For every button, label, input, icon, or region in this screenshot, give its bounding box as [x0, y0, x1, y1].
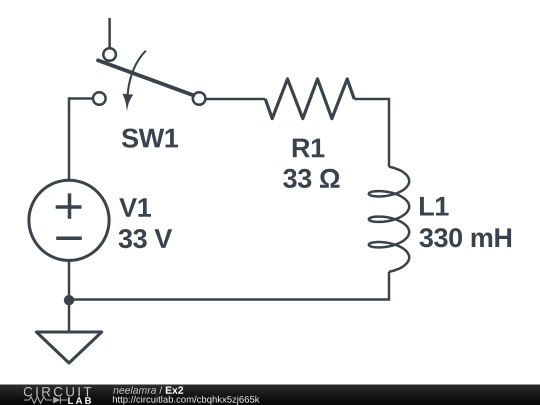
actuation arrow head — [122, 94, 133, 112]
label R1 — [293, 139, 325, 158]
minus sign — [56, 236, 82, 240]
value 33 ohm — [283, 169, 339, 188]
label V1 — [119, 198, 151, 217]
label L1 — [420, 197, 449, 216]
wire from common to resistor — [206, 98, 266, 101]
junction node dot — [64, 295, 74, 305]
wire inductor bottom to ground rail — [69, 272, 389, 300]
terminal circle right (common) — [193, 92, 206, 105]
wire from left throw to V1 top — [69, 99, 93, 182]
title name Ex2 — [166, 386, 183, 393]
voltage source V1 — [29, 180, 109, 260]
footer watermark bar — [0, 385, 540, 405]
title author neelamra — [113, 386, 156, 394]
url text — [113, 396, 260, 405]
actuation arrow curve — [128, 51, 146, 95]
ground symbol — [36, 332, 101, 363]
switch blade — [98, 60, 193, 95]
logo CIRCUIT text — [24, 387, 91, 397]
terminal circle top (throw 1) — [103, 48, 116, 61]
inductor L1 coil — [369, 167, 409, 272]
switch SW1 — [93, 48, 205, 111]
label SW1 — [122, 129, 178, 148]
value 330 mH — [420, 228, 512, 247]
logo squiggle: wire resistor diode — [24, 396, 67, 403]
title separator slash — [159, 386, 162, 394]
resistor R1 — [265, 79, 354, 119]
terminal circle left (throw 2) — [93, 92, 106, 105]
wire top stub to switch throw terminal — [108, 18, 111, 48]
V1 circle body — [29, 180, 109, 260]
wire V1 bottom to junction and ground — [68, 260, 71, 332]
logo LAB text — [68, 397, 91, 404]
value 33 V — [119, 229, 173, 248]
wire resistor to top-right corner down to inductor — [354, 99, 389, 167]
plus sign — [56, 193, 82, 218]
